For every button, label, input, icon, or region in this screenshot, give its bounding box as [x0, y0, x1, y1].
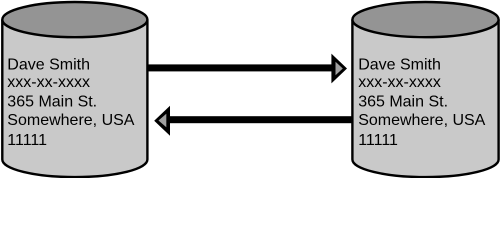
svg-text:11111: 11111: [7, 132, 47, 149]
cylinder right: top ellipse: [352, 2, 498, 37]
svg-text:365 Main St.: 365 Main St.: [7, 94, 97, 111]
arrow left-pointing: head outer: [154, 106, 170, 136]
arrow left-pointing: head inner: [159, 114, 167, 127]
arrow right-pointing: head inner: [336, 62, 343, 75]
svg-text:11111: 11111: [358, 132, 398, 149]
svg-text:365 Main St.: 365 Main St.: [358, 94, 448, 111]
cylinder (database) right: body: [352, 20, 498, 178]
arrow right-pointing: shaft: [147, 64, 334, 71]
svg-text:Somewhere, USA: Somewhere, USA: [358, 112, 485, 129]
svg-text:xxx-xx-xxxx: xxx-xx-xxxx: [7, 74, 90, 91]
svg-text:Dave Smith: Dave Smith: [358, 56, 441, 73]
svg-text:Somewhere, USA: Somewhere, USA: [7, 112, 134, 129]
svg-text:Dave Smith: Dave Smith: [7, 56, 90, 73]
arrow left-pointing: shaft: [167, 116, 353, 123]
cylinder left: top ellipse: [2, 2, 147, 37]
cylinder (database) left: body: [2, 20, 147, 178]
arrow right-pointing: head outer: [331, 54, 347, 84]
svg-text:xxx-xx-xxxx: xxx-xx-xxxx: [358, 74, 441, 91]
